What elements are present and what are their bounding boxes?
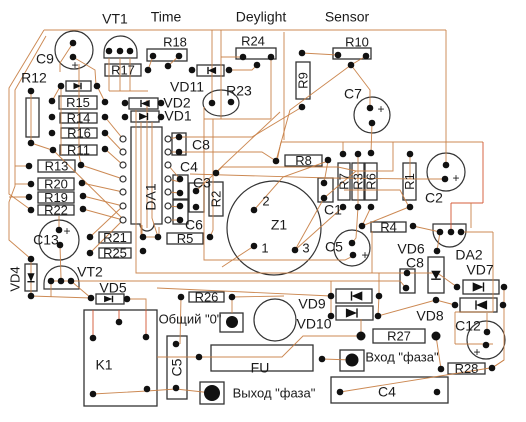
svg-text:K1: K1 (95, 357, 112, 373)
svg-text:VD11: VD11 (170, 79, 204, 95)
svg-text:R22: R22 (44, 203, 68, 218)
svg-text:+: + (452, 171, 459, 185)
svg-text:C4: C4 (378, 384, 396, 400)
svg-text:C3: C3 (193, 175, 211, 191)
svg-text:Time: Time (151, 9, 182, 25)
svg-text:R16: R16 (67, 126, 91, 141)
svg-text:R25: R25 (103, 246, 127, 261)
svg-text:R5: R5 (177, 231, 194, 246)
svg-text:VD7: VD7 (466, 262, 493, 278)
svg-text:C13: C13 (33, 232, 59, 248)
svg-text:+: + (361, 248, 368, 262)
svg-text:R11: R11 (67, 143, 90, 158)
svg-text:C5: C5 (169, 358, 185, 376)
svg-text:R12: R12 (21, 70, 47, 86)
svg-text:+: + (473, 345, 480, 359)
svg-text:+: + (71, 58, 78, 72)
svg-text:R4: R4 (380, 220, 397, 235)
svg-text:R8: R8 (295, 153, 312, 168)
svg-text:R7: R7 (337, 173, 352, 190)
svg-text:R23: R23 (226, 83, 252, 99)
svg-text:C5: C5 (325, 239, 343, 255)
svg-text:+: + (63, 224, 70, 238)
svg-text:VD4: VD4 (8, 266, 23, 291)
svg-text:C8: C8 (406, 255, 424, 271)
svg-text:C1: C1 (324, 202, 342, 218)
svg-text:C8: C8 (192, 137, 210, 153)
svg-text:R26: R26 (195, 290, 219, 305)
svg-text:R9: R9 (296, 72, 311, 89)
svg-text:FU: FU (251, 360, 270, 376)
svg-text:DA2: DA2 (455, 247, 482, 263)
svg-text:R21: R21 (103, 230, 127, 245)
svg-text:R24: R24 (241, 34, 265, 49)
svg-text:R18: R18 (163, 35, 187, 50)
svg-text:R10: R10 (345, 35, 369, 50)
svg-text:R28: R28 (455, 361, 479, 376)
svg-text:C12: C12 (455, 318, 481, 334)
svg-text:Z1: Z1 (271, 217, 288, 233)
svg-text:Deylight: Deylight (236, 9, 287, 25)
svg-text:VD1: VD1 (164, 108, 191, 124)
svg-text:Вход "фаза": Вход "фаза" (365, 350, 439, 365)
svg-text:C2: C2 (425, 190, 443, 206)
svg-text:2: 2 (262, 194, 269, 209)
svg-text:3: 3 (302, 241, 309, 256)
svg-text:DA1: DA1 (143, 183, 159, 210)
svg-text:R1: R1 (402, 173, 417, 190)
svg-text:VD5: VD5 (99, 280, 126, 296)
svg-text:R27: R27 (387, 329, 411, 344)
svg-text:Sensor: Sensor (325, 9, 370, 25)
svg-text:C4: C4 (180, 159, 198, 175)
svg-text:VT2: VT2 (77, 264, 103, 280)
svg-text:VD10: VD10 (296, 316, 331, 332)
svg-text:VD8: VD8 (416, 308, 443, 324)
svg-text:C7: C7 (344, 86, 362, 102)
svg-text:Общий "0": Общий "0" (159, 312, 222, 327)
svg-text:R6: R6 (364, 173, 379, 190)
svg-text:1: 1 (261, 241, 268, 256)
svg-text:VT1: VT1 (102, 11, 128, 27)
svg-text:R14: R14 (67, 111, 91, 126)
svg-text:R2: R2 (209, 191, 224, 208)
svg-text:C9: C9 (36, 51, 54, 67)
svg-text:+: + (377, 102, 384, 116)
svg-text:R13: R13 (45, 159, 69, 174)
svg-text:Выход "фаза": Выход "фаза" (233, 386, 316, 401)
svg-text:R15: R15 (66, 95, 90, 110)
svg-text:R17: R17 (111, 63, 135, 78)
svg-text:C6: C6 (185, 217, 203, 233)
svg-text:VD9: VD9 (298, 296, 325, 312)
